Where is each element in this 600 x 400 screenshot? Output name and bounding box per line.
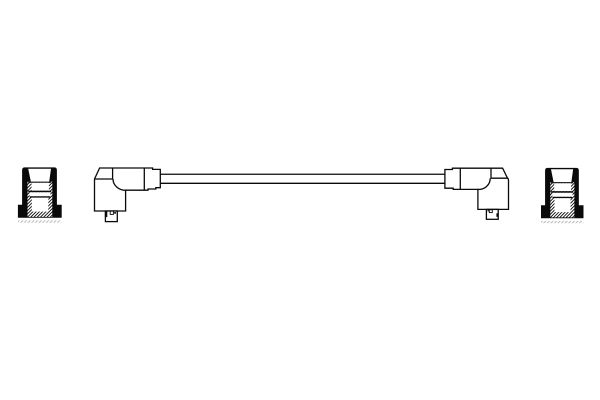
- right connector bottom line extension to bend: [477, 188, 480, 190]
- left connector ferrule divider line: [143, 168, 145, 190]
- left connector elbow bend curve: [113, 179, 126, 190]
- right connector elbow bend curve: [480, 178, 490, 189]
- right tip thick right edge: [496, 213, 498, 217]
- right rubber boot: [541, 168, 583, 223]
- left tip notch square: [110, 211, 113, 214]
- left rubber boot: [18, 167, 62, 222]
- right connector cap step vertical line: [490, 168, 492, 178]
- left connector cap step horizontal line: [95, 178, 114, 180]
- ignition cable (top line): [160, 173, 446, 175]
- left elbow connector body: [95, 168, 161, 211]
- left tip thick left edge: [105, 211, 107, 217]
- right tip small dot: [488, 210, 489, 211]
- left connector terminal tip: [105, 211, 117, 222]
- left tip small dash: [114, 212, 116, 214]
- right elbow connector body: [445, 168, 509, 209]
- right connector ferrule divider line: [459, 168, 461, 189]
- right connector terminal tip: [486, 209, 498, 219]
- right tip notch square: [489, 210, 492, 213]
- right connector cap step horizontal line: [491, 177, 508, 179]
- left connector cap step vertical line: [112, 168, 114, 179]
- ignition cable (bottom line): [160, 182, 446, 184]
